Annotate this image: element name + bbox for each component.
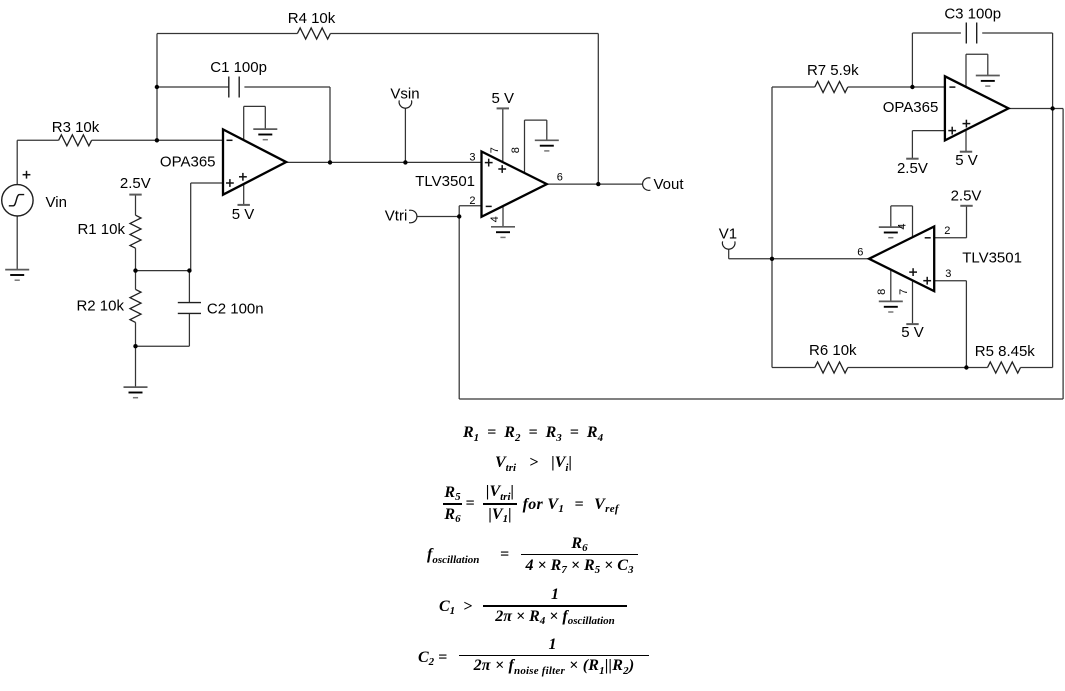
svg-text:4: 4 [489,216,501,222]
svg-text:R1 10k: R1 10k [77,221,125,238]
svg-text:5 V: 5 V [232,206,255,223]
svg-text:C2 100n: C2 100n [207,301,264,318]
svg-text:2: 2 [944,225,950,237]
svg-text:R6 10k: R6 10k [809,342,857,359]
svg-text:OPA365: OPA365 [160,154,216,171]
svg-text:Vtri: Vtri [385,207,408,224]
svg-text:TLV3501: TLV3501 [415,173,475,190]
svg-text:R5 8.45k: R5 8.45k [975,343,1036,360]
svg-text:R3 10k: R3 10k [52,119,100,136]
svg-text:TLV3501: TLV3501 [962,249,1022,266]
svg-text:8: 8 [510,147,522,153]
svg-text:OPA365: OPA365 [883,99,939,116]
svg-text:2: 2 [469,195,475,207]
svg-text:R2 10k: R2 10k [76,297,124,314]
svg-text:5 V: 5 V [955,152,978,169]
svg-text:C3 100p: C3 100p [944,5,1001,22]
svg-text:6: 6 [557,172,563,184]
svg-text:R4 10k: R4 10k [288,10,336,27]
svg-text:2.5V: 2.5V [897,160,928,177]
svg-text:Vout: Vout [654,176,685,193]
svg-text:7: 7 [489,147,501,153]
svg-text:4: 4 [897,224,909,230]
svg-text:2.5V: 2.5V [120,175,151,192]
svg-text:Vin: Vin [46,194,67,211]
svg-text:5 V: 5 V [901,324,924,341]
svg-text:V1: V1 [719,225,737,242]
svg-text:R7 5.9k: R7 5.9k [807,62,859,79]
svg-text:Vsin: Vsin [390,85,419,102]
svg-text:3: 3 [469,151,475,163]
svg-text:3: 3 [945,268,951,280]
svg-text:C1 100p: C1 100p [210,59,267,76]
svg-text:2.5V: 2.5V [951,187,982,204]
svg-text:8: 8 [876,289,888,295]
svg-text:6: 6 [857,247,863,259]
svg-text:5 V: 5 V [492,90,515,107]
svg-text:7: 7 [898,289,910,295]
